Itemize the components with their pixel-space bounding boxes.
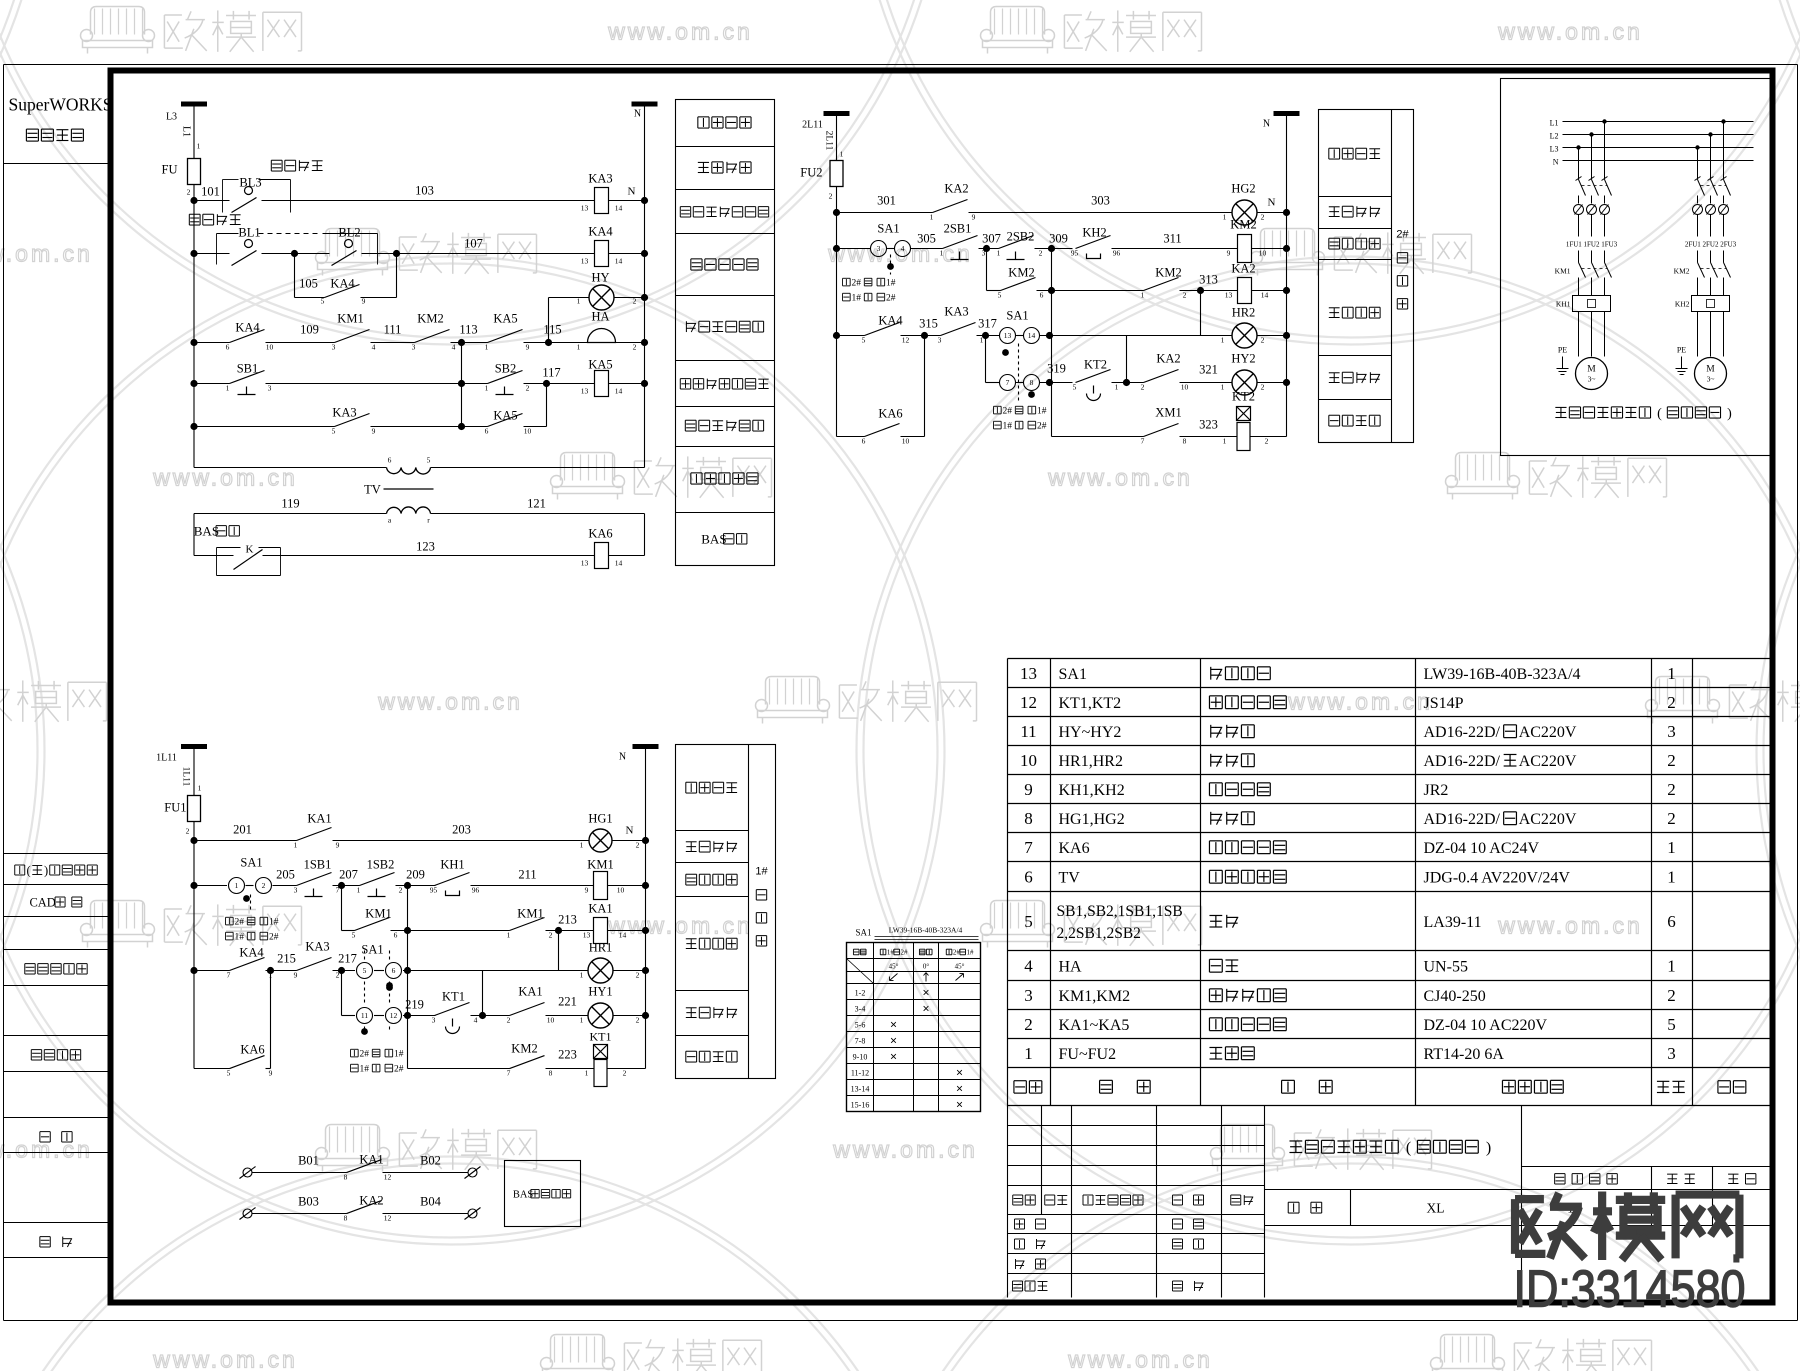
svg-text:1: 1 [1667,957,1676,976]
contact KA3 c3 [297,958,332,971]
contact KA2 BAS [347,1201,382,1214]
svg-text:9: 9 [294,971,298,980]
node 301 [833,209,840,216]
svg-text:7: 7 [1141,437,1145,446]
svg-text:3: 3 [938,336,942,345]
terminal B02 right [468,1168,477,1177]
sidebar text 旧底图总号 [25,963,35,965]
wire B02 [383,1172,468,1174]
wire 217 + node [333,970,356,972]
svg-text:119: 119 [281,497,299,511]
wire 321 [1180,382,1232,384]
svg-text:AC220V: AC220V [1519,753,1577,770]
svg-text:6: 6 [1040,291,1044,300]
svg-text:HG1,HG2: HG1,HG2 [1059,811,1125,828]
indicator lamp HR2 [1232,323,1257,348]
wire 309 + node [1035,248,1073,250]
wire 209 + node [396,885,436,887]
svg-text:8: 8 [1183,437,1187,446]
svg-text:): ) [1727,407,1732,422]
wire row6 a [194,426,335,428]
title text 工艺 [1015,1259,1017,1269]
left bus vertical circuit1 [193,201,195,468]
sidebar text 底图总号 [31,1049,41,1051]
label cell c2 故障指示 [1329,372,1340,374]
wire fuse1 down [193,822,195,841]
svg-text:12: 12 [390,1011,398,1020]
right bus vertical circuit2 [1286,114,1288,437]
wire KA6 row c3 [194,1068,230,1070]
svg-text:1#: 1# [234,933,244,943]
svg-text:10: 10 [524,427,532,436]
svg-text:PE: PE [1558,346,1567,355]
svg-text:5: 5 [321,297,325,306]
wire row4 a [194,342,230,344]
wire 211 [471,885,594,887]
contact KA4 selfhold [325,285,360,298]
wire 113 + node [451,342,488,344]
svg-text:KA3: KA3 [332,406,356,420]
svg-text:SB2: SB2 [495,362,517,376]
svg-text:123: 123 [416,540,435,554]
svg-text:107: 107 [464,237,483,251]
svg-text:4: 4 [901,244,905,253]
svg-text:309: 309 [1049,232,1068,246]
relay coil KA3 [595,188,609,214]
pushbutton 2SB1 [943,236,978,249]
svg-text:6: 6 [394,931,398,940]
svg-text:5: 5 [1024,912,1033,931]
svg-text:3~: 3~ [1588,375,1596,384]
node row2 c2 [833,245,840,252]
wire BAS row left [194,555,234,557]
sidebar [4,164,111,1258]
svg-text:223: 223 [558,1048,577,1062]
svg-text:JS14P: JS14P [1424,695,1464,712]
svg-text:219: 219 [405,998,424,1012]
svg-text:1: 1 [1221,383,1225,392]
svg-text:1: 1 [1667,838,1676,857]
BAS feedback box [505,1161,581,1227]
selector SA1 contact 7-8 [986,382,1000,384]
indicator lamp HY2 [1232,370,1257,395]
svg-text:KA6: KA6 [588,527,612,541]
node row4 left [190,339,197,346]
wire KA1coil to N [608,930,646,932]
svg-text:B02: B02 [420,1154,441,1168]
wire 107 [362,253,595,255]
svg-text:×: × [890,1050,897,1064]
label cell 水位过低报警 [685,419,696,421]
wire HY to N [615,297,645,299]
svg-text:www.om.cn: www.om.cn [1047,465,1193,491]
wire HR2 to N [1257,335,1287,337]
label cell 水位过低继电器 [680,206,690,208]
wire row1 left c2 [837,212,933,214]
svg-text:45°: 45° [889,963,899,971]
svg-text:KA1: KA1 [307,812,331,826]
indicator lamp HY1 [588,1003,613,1028]
bus L1 power [1563,121,1754,123]
svg-text:3~: 3~ [1707,375,1715,384]
sidebar text 绘图软件 [26,128,38,130]
wire 103 [262,200,595,202]
svg-text:317: 317 [978,317,997,331]
thermal relay KH2 [1692,296,1730,312]
wire KT1coil to N [608,1068,646,1070]
fuses 1FU1-1FU3 [1574,205,1584,215]
svg-text:1: 1 [577,343,581,352]
svg-text:KH1: KH1 [440,858,464,872]
svg-text:3: 3 [432,1016,436,1025]
wire 1L11 drop [193,747,195,797]
pushbutton 1SB2 [360,873,395,886]
svg-text:KT2: KT2 [1084,358,1107,372]
wire 307 + node [979,248,999,250]
svg-text:1: 1 [357,886,361,895]
svg-text:2: 2 [1667,809,1676,828]
wire secondary left drop [193,514,195,556]
svg-text:5: 5 [363,966,367,975]
wire 305 [911,248,943,250]
svg-text:BL1: BL1 [238,226,260,240]
svg-text:4: 4 [1024,957,1033,976]
contact KA1 stop [297,828,332,841]
svg-text:2#: 2# [901,949,909,957]
svg-text:KA4: KA4 [235,321,260,335]
svg-text:AC220V: AC220V [1519,811,1577,828]
svg-text:1SB2: 1SB2 [367,858,395,872]
svg-text:10: 10 [1181,383,1189,392]
wire row5 a [194,383,230,385]
label cell c3 停泵指示 [686,841,697,843]
svg-text:1#: 1# [359,1065,369,1075]
svg-text:6: 6 [862,437,866,446]
svg-text:8: 8 [1024,809,1033,828]
svg-text:9: 9 [585,886,589,895]
svg-text:(: ( [1406,1140,1411,1157]
svg-text:1: 1 [226,384,230,393]
svg-text:1#: 1# [967,949,975,957]
svg-text:10: 10 [1259,249,1267,258]
svg-text:5: 5 [352,931,356,940]
svg-text:KH1: KH1 [1556,300,1571,309]
wire row1 left c3 [194,840,297,842]
wire selfhold to riser309 [1037,290,1144,292]
label cell c2 手动控制 [1329,237,1340,239]
svg-text:9: 9 [336,841,340,850]
svg-text:AD16-22D/: AD16-22D/ [1424,811,1501,828]
svg-text:5: 5 [862,336,866,345]
wire KM1coil to N [608,885,646,887]
svg-text:KT1: KT1 [442,990,465,1004]
svg-text:96: 96 [1113,249,1121,258]
svg-text:5: 5 [998,291,1002,300]
contactor coil KM2 [1238,235,1252,263]
svg-text:KA6: KA6 [878,407,902,421]
svg-text:13-14: 13-14 [851,1085,870,1094]
title block grid [1008,1106,1773,1298]
svg-text:KA4: KA4 [330,277,355,291]
svg-text:L1: L1 [1550,119,1559,128]
riser HY [548,298,550,343]
wire row2 b [262,253,330,255]
svg-text:BAS: BAS [194,524,219,539]
svg-text:9-10: 9-10 [853,1053,868,1062]
BOM table grid [1008,659,1773,1106]
svg-text:): ) [44,864,48,878]
wire KA6 to riser [901,436,925,438]
title text 设计/审定 [1015,1218,1025,1220]
svg-text:×: × [956,1098,963,1112]
svg-text:KT2: KT2 [1232,390,1255,404]
svg-text:KA3: KA3 [588,172,612,186]
fuse FU [188,159,201,185]
svg-text:M: M [1587,365,1596,375]
title drawing name 给水泵全压起动（一用一备） [1289,1140,1302,1142]
wire B03 [253,1213,347,1215]
label cell c2 控制电源 [1329,147,1340,149]
svg-text:KM1: KM1 [365,907,391,921]
wire fuses to KM1 [1578,251,1580,263]
pushbutton 2SB2 [999,236,1034,249]
svg-text:N: N [1263,119,1270,130]
label cell 熔断保护 [698,161,709,163]
svg-text:11: 11 [1020,722,1036,741]
svg-text:HY: HY [591,271,609,285]
indicator lamp HG1 [589,829,612,852]
svg-text:2#: 2# [1037,422,1047,432]
svg-text:95: 95 [430,886,438,895]
wire row6 common c3 [408,1068,510,1070]
svg-text:DZ-04 10 AC24V: DZ-04 10 AC24V [1424,840,1540,857]
label cell c3 自动控制 [686,938,697,940]
svg-text:2: 2 [1261,336,1265,345]
svg-text:FU1: FU1 [164,801,186,815]
wire 303 [969,212,1232,214]
terminal B03 left [243,1209,252,1218]
wire 105 right + riser [361,297,397,299]
svg-text:KA4: KA4 [878,314,903,328]
wire 111 [371,342,415,344]
label cell 音响消除及试铃 [680,378,690,380]
wire row2 a c2 [837,248,871,250]
bus L3 power [1563,147,1754,149]
svg-text:6: 6 [1667,912,1676,931]
svg-text:BAS: BAS [513,1190,534,1201]
svg-text:12: 12 [384,1173,392,1182]
svg-text:1#: 1# [1037,407,1047,417]
svg-text:SA1: SA1 [240,856,262,870]
svg-text:RT14-20 6A: RT14-20 6A [1424,1046,1505,1063]
svg-text:7: 7 [1024,838,1033,857]
riser 217 [341,971,343,1016]
svg-text:1: 1 [940,249,944,258]
svg-text:3: 3 [294,886,298,895]
right bus N tick circuit1 [632,102,658,107]
svg-text:3: 3 [1667,722,1676,741]
contact K BAS box [217,547,241,549]
svg-text:LW39-16B-40B-323A/4: LW39-16B-40B-323A/4 [1424,666,1581,683]
svg-text:1#: 1# [1002,422,1012,432]
svg-text:303: 303 [1091,194,1110,208]
contactor main contacts KM1 [1579,263,1586,278]
selector SA1 contact 11-12 [342,1015,356,1017]
svg-text:N: N [1553,158,1559,167]
svg-text:2: 2 [1024,1015,1033,1034]
wire HG2 to N [1257,212,1287,214]
svg-text:×: × [956,1066,963,1080]
pushbutton SB2 [488,371,523,384]
riser 213 to HR1 row [558,931,560,971]
fuses 2FU1-2FU3 [1693,205,1703,215]
svg-text:201: 201 [233,823,252,837]
svg-text:FU2: FU2 [800,166,822,180]
wire HY1 to N [613,1015,646,1017]
wire KH2 to motor [1697,312,1699,357]
wire 2L11 drop [836,114,838,163]
time relay coil KT2 [1237,407,1251,421]
svg-text:9: 9 [526,343,530,352]
svg-text:×: × [890,1018,897,1032]
svg-text:SA1: SA1 [877,222,899,236]
svg-text:HY1: HY1 [588,985,612,999]
svg-text:0°: 0° [923,963,930,971]
label switch positions upper [843,277,851,279]
bus 1L11 supply tick [181,744,207,749]
svg-text:KM2: KM2 [1155,266,1181,280]
svg-text:4: 4 [474,1016,478,1025]
float switch contact BL3 [245,187,253,195]
svg-text:1: 1 [1115,383,1119,392]
title text 校对/批准 [1015,1238,1025,1240]
pushbutton SB1 [230,371,265,384]
title text 标准化/日期 [1013,1280,1023,1282]
svg-text:www.om.cn: www.om.cn [0,1137,93,1163]
svg-text:AC220V: AC220V [1519,724,1577,741]
svg-text:KA1: KA1 [588,902,612,916]
bus N power [1563,160,1754,162]
indicator lamp HG2 [1232,200,1257,225]
svg-text:13: 13 [583,931,591,940]
svg-text:KM2: KM2 [511,1042,537,1056]
wire row4 a c2 [837,335,865,337]
svg-text:KA2: KA2 [1156,352,1180,366]
svg-text:11: 11 [361,1011,368,1020]
svg-text:9: 9 [269,1069,273,1078]
wire 317 + node [977,335,1000,337]
svg-text:www.om.cn: www.om.cn [152,465,298,491]
wire 215 + node [266,970,297,972]
title text 图样标记 重量 比例 [1555,1173,1565,1175]
svg-text:×: × [890,1034,897,1048]
node row4 c2 [833,332,840,339]
wire KT2coil to N [1250,436,1287,438]
label cell 控制电压 [698,116,709,118]
svg-text:11-12: 11-12 [851,1069,869,1078]
wire row2 a [194,253,230,255]
svg-text:ID:3314580: ID:3314580 [1514,1261,1746,1319]
svg-text:6: 6 [1024,868,1033,887]
breaker QF2 [1698,180,1705,196]
svg-text:2: 2 [262,881,266,890]
svg-text:KT1: KT1 [590,1030,612,1044]
wire HY left [549,297,589,299]
svg-text:SB1: SB1 [237,362,259,376]
title text 标记处数更改文件号签字日期 [1013,1194,1023,1196]
wire TV primary left [194,467,387,469]
node row6 left [190,423,197,430]
wire fuse2 down [836,187,838,213]
wire row4 to HR1 [403,970,588,972]
contactor main contacts KM2 [1698,263,1705,278]
svg-text:2#: 2# [234,918,244,928]
svg-text:2: 2 [507,1016,511,1025]
svg-text:HR2: HR2 [1232,306,1256,320]
svg-text:HG2: HG2 [1231,182,1255,196]
contact KM1 selfhold [342,930,355,932]
svg-text:2#: 2# [394,1065,404,1075]
svg-text:1: 1 [1221,336,1225,345]
svg-text:N: N [619,752,626,763]
svg-text:KA2: KA2 [1231,262,1255,276]
svg-text:1: 1 [1024,1044,1033,1063]
svg-text:www.om.cn: www.om.cn [607,19,753,45]
svg-text:14: 14 [1261,291,1269,300]
wire HG1 to N [612,840,646,842]
svg-text:1: 1 [485,343,489,352]
svg-text:www.om.cn: www.om.cn [1067,1347,1213,1371]
svg-text:HR1: HR1 [589,941,613,955]
svg-text:5: 5 [1073,383,1077,392]
svg-text:KM2: KM2 [1008,266,1034,280]
svg-text:14: 14 [1028,331,1036,340]
right bus N tick circuit2 [1274,111,1300,116]
svg-text:1: 1 [1667,664,1676,683]
wire KM2coil to N [1252,248,1287,250]
svg-text:8: 8 [1030,378,1034,387]
svg-text:N: N [628,186,636,198]
wire 315 + node [901,335,941,337]
svg-text:213: 213 [558,913,577,927]
svg-text:LW39-16B-40B-323A/4: LW39-16B-40B-323A/4 [889,926,963,935]
svg-text:N: N [634,109,641,120]
svg-text:KM1: KM1 [517,907,543,921]
svg-text:1: 1 [585,1069,589,1078]
svg-text:1: 1 [577,297,581,306]
svg-text:13: 13 [1020,664,1037,683]
svg-text:KA2: KA2 [359,1194,383,1208]
svg-text:3-4: 3-4 [855,1005,866,1014]
left bus vertical circuit3 [193,841,195,1069]
contact KA5 alarm [488,330,523,343]
selector SA1 contact 1-2 [229,878,245,894]
wire row6 common c2 [1052,436,1144,438]
node row2 left [190,250,197,257]
svg-text:(: ( [27,864,31,878]
svg-text:SA1: SA1 [361,943,383,957]
svg-text:2: 2 [1183,291,1187,300]
svg-text:K: K [246,544,254,556]
svg-text:L3: L3 [1550,145,1559,154]
thermal contact KH1 [435,873,470,886]
svg-text:www.om.cn: www.om.cn [1497,913,1643,939]
terminal B04 right [468,1209,477,1218]
svg-text:BL2: BL2 [338,226,360,240]
svg-text:3: 3 [268,384,272,393]
svg-text:KM2: KM2 [1674,267,1690,276]
svg-text:2SB2: 2SB2 [1007,230,1035,244]
